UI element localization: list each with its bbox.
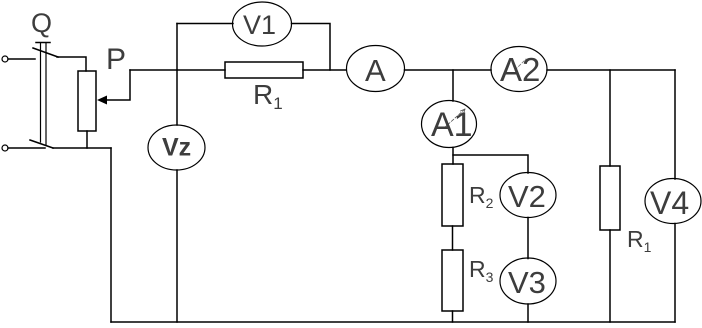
wire V2 to V3	[527, 218, 529, 259]
svg-text:P: P	[106, 43, 126, 76]
wire Rt branch top	[609, 70, 611, 166]
voltmeter V1	[233, 2, 292, 46]
switch Q linkage bar	[36, 42, 50, 44]
wire A2 to right	[547, 69, 675, 71]
wire Vz to rail	[176, 170, 178, 322]
wire lower terminal lead	[8, 147, 45, 149]
resistor R1 body	[225, 62, 303, 78]
switch Q lower terminal	[2, 145, 8, 151]
svg-text:V4: V4	[650, 185, 689, 221]
wire V4 to rail	[674, 224, 676, 323]
wire bottom rail	[111, 321, 675, 323]
wire V1 branch top left	[177, 23, 233, 25]
resistor R2 body	[442, 164, 463, 226]
voltmeter Vz	[148, 125, 205, 170]
wire main node to R1	[130, 69, 225, 71]
switch Q lower blade	[30, 140, 53, 148]
wire lower pole to left drop	[53, 147, 111, 149]
svg-text:A: A	[365, 53, 386, 88]
ammeter A1	[422, 101, 477, 148]
voltmeter V3	[500, 258, 556, 304]
svg-text:V1: V1	[243, 10, 276, 40]
voltmeter V2	[500, 173, 556, 218]
switch Q linkage rods	[40, 43, 42, 142]
voltmeter V4	[645, 179, 701, 224]
ammeter A	[347, 46, 405, 92]
svg-text:V3: V3	[508, 265, 546, 300]
svg-text:A2: A2	[500, 51, 540, 88]
wire A to A2	[405, 69, 492, 71]
wire branch to V2	[453, 155, 528, 173]
wire R1 to ammeter A	[303, 69, 346, 71]
svg-text:Q: Q	[31, 8, 52, 38]
wire V1 branch top right	[292, 24, 331, 71]
wire pot bottom lead	[86, 131, 88, 148]
switch Q upper terminal	[2, 56, 8, 62]
wire A1 branch top	[452, 70, 454, 101]
ammeter A2 needle	[515, 59, 526, 70]
ammeter A2	[491, 47, 547, 92]
wire right branch down to V4	[674, 70, 676, 179]
wire V1 branch left vertical	[176, 24, 178, 71]
svg-text:A1: A1	[431, 106, 473, 144]
wire upper terminal lead	[8, 58, 35, 60]
wire upper pole to pot	[57, 57, 86, 71]
wire left vertical drop	[110, 148, 112, 322]
wire node down to Vz	[176, 70, 178, 125]
potentiometer P wiper arrowhead	[97, 96, 107, 105]
svg-text:V2: V2	[508, 179, 546, 214]
potentiometer P wiper wire	[104, 70, 130, 100]
ammeter A1 needle arrowhead	[461, 109, 466, 114]
svg-text:Vz: Vz	[162, 134, 191, 162]
resistor Rt body	[600, 166, 620, 230]
wire A1 bottom to R2	[452, 148, 454, 165]
ammeter A1 needle	[444, 109, 465, 128]
wire Rt to rail	[609, 230, 611, 322]
wire V3 to rail	[527, 304, 529, 322]
wire R2 to R3	[452, 226, 454, 250]
resistor R3 body	[442, 250, 463, 311]
wire R3 to rail	[452, 311, 454, 322]
switch Q upper blade	[33, 48, 58, 57]
potentiometer P body	[78, 71, 96, 131]
